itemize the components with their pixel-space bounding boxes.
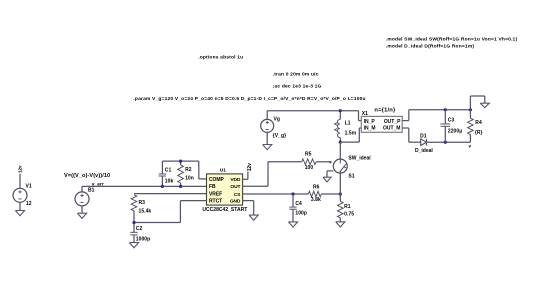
svg-text:COMP: COMP	[209, 177, 225, 183]
svg-text:X1: X1	[362, 111, 368, 117]
svg-text:IN_P: IN_P	[364, 119, 376, 125]
svg-text:10n: 10n	[185, 176, 194, 182]
svg-text:1.5m: 1.5m	[345, 131, 357, 137]
svg-text:D_ideal: D_ideal	[415, 148, 433, 154]
svg-text:100: 100	[305, 165, 314, 171]
svg-text:v: v	[469, 143, 472, 148]
svg-text:U1: U1	[220, 167, 227, 173]
svg-text:12v: 12v	[247, 163, 253, 171]
svg-text:S1: S1	[348, 173, 354, 179]
svg-text:C4: C4	[295, 201, 302, 207]
svg-text:R5: R5	[305, 151, 312, 157]
svg-text:R2: R2	[185, 167, 192, 173]
svg-text:1000p: 1000p	[136, 236, 150, 242]
svg-text:R6: R6	[313, 184, 320, 190]
svg-text:B1: B1	[88, 188, 95, 194]
svg-text:.model D_ideal D(Roff=1G Ron=1: .model D_ideal D(Roff=1G Ron=1m)	[386, 44, 475, 50]
svg-text:.param V_g=120 V_o=24 P_o=40 n: .param V_g=120 V_o=24 P_o=40 n=5 D=0.5 D…	[133, 96, 365, 102]
svg-text:12v: 12v	[18, 165, 23, 173]
svg-text:CS: CS	[234, 192, 241, 198]
svg-text:VREF: VREF	[209, 191, 222, 197]
svg-text:{V_g}: {V_g}	[273, 133, 286, 139]
svg-text:OUT_P: OUT_P	[384, 119, 401, 125]
svg-text:12: 12	[26, 201, 32, 207]
svg-text:10k: 10k	[165, 179, 174, 185]
svg-text:;ac dec 1e3 1e-3 1G: ;ac dec 1e3 1e-3 1G	[273, 83, 322, 89]
svg-text:3.8k: 3.8k	[311, 197, 321, 203]
svg-text:L1: L1	[345, 120, 351, 126]
svg-text:V=((V_o)-V(v))/10: V=((V_o)-V(v))/10	[64, 173, 110, 179]
svg-text:2200µ: 2200µ	[448, 128, 462, 134]
svg-text:R3: R3	[139, 200, 146, 206]
svg-text:R1: R1	[344, 204, 351, 210]
svg-text:C1: C1	[165, 167, 172, 173]
svg-text:UCC28C42_START: UCC28C42_START	[202, 207, 247, 213]
svg-text:SW_ideal: SW_ideal	[348, 155, 371, 161]
svg-text:100p: 100p	[295, 210, 307, 216]
svg-text:0.75: 0.75	[344, 211, 354, 217]
svg-text:VDD: VDD	[230, 177, 240, 183]
svg-text:n={1/n}: n={1/n}	[374, 107, 396, 113]
svg-text:RTCT: RTCT	[209, 198, 222, 204]
svg-text:C2: C2	[136, 226, 143, 232]
svg-text:.model SW_ideal SW(Roff=1G Ron: .model SW_ideal SW(Roff=1G Ron=1u Von=1 …	[386, 36, 518, 42]
svg-text:15.4k: 15.4k	[139, 208, 152, 214]
svg-text:.options abstol 1u: .options abstol 1u	[198, 55, 243, 61]
svg-text:Vg: Vg	[274, 116, 281, 122]
svg-text:FB: FB	[209, 184, 216, 190]
svg-text:.tran 0 20m 0m uic: .tran 0 20m 0m uic	[273, 71, 319, 77]
svg-text:GND: GND	[230, 198, 241, 204]
svg-text:R4: R4	[475, 120, 482, 126]
svg-text:IN_M: IN_M	[364, 126, 376, 132]
svg-text:OUT_M: OUT_M	[383, 126, 400, 132]
svg-text:{R}: {R}	[475, 130, 483, 136]
svg-text:OUT: OUT	[230, 184, 240, 190]
svg-text:D1: D1	[420, 134, 427, 140]
svg-text:C3: C3	[448, 117, 455, 123]
svg-text:V1: V1	[26, 184, 32, 190]
